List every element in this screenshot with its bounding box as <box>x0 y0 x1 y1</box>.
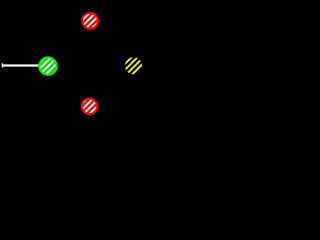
node top (red hatched) <box>82 13 98 29</box>
node left (green hatched) <box>39 57 56 74</box>
wire end cap <box>1 63 3 67</box>
wire <box>2 64 40 66</box>
node bottom (red hatched) <box>82 99 98 115</box>
node right (yellow hatched) <box>125 57 142 74</box>
